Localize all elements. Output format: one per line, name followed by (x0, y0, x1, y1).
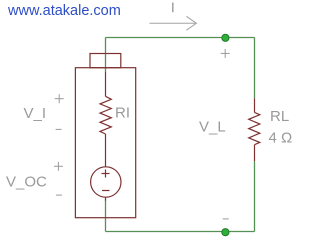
Thevenin equivalent box outline (75, 68, 135, 218)
voltage source minus mark (102, 190, 110, 192)
wire: RL bottom lead (red) (254, 145, 256, 162)
wire: left vertical green segment entering box (105, 38, 107, 72)
label - (V_OC polarity bottom) (56, 194, 62, 196)
wire: RI top lead (red) (105, 72, 107, 97)
label - (V_L polarity bottom) (223, 218, 229, 220)
svg-text:RI: RI (115, 104, 130, 121)
wire: top horizontal net from Thevenin box to load (106, 37, 255, 39)
wire: right vertical green segment below RL (254, 161, 256, 231)
resistor RL (249, 112, 260, 144)
label + (V_I polarity top) (55, 98, 64, 100)
svg-text:V_OC: V_OC (6, 173, 47, 190)
wire: bottom horizontal return net (106, 231, 255, 233)
Thevenin box terminal notch (90, 54, 121, 68)
svg-text:www.atakale.com: www.atakale.com (7, 3, 121, 19)
voltage source plus mark (102, 173, 110, 175)
current arrow I (150, 22, 196, 24)
voltage source V_OC circle (91, 167, 121, 197)
svg-text:RL: RL (270, 108, 289, 125)
svg-text:4 Ω: 4 Ω (269, 130, 293, 147)
svg-text:V_L: V_L (199, 119, 226, 136)
wire: lead between RI and source V_OC (red) (105, 134, 107, 167)
wire: right vertical green segment above RL (254, 38, 256, 99)
wire: left vertical green segment below source (105, 200, 107, 232)
label + (V_OC polarity top) (54, 165, 63, 167)
label I (current) (172, 3, 174, 13)
node dot: top output terminal (222, 34, 229, 41)
wire: source bottom lead (red) (105, 197, 107, 200)
node dot: bottom output terminal (222, 229, 229, 236)
resistor RI (100, 96, 111, 134)
label - (V_I polarity bottom) (56, 128, 62, 130)
label + (V_L polarity top) (221, 52, 230, 54)
wire: RL top lead (red) (254, 98, 256, 112)
svg-text:V_I: V_I (24, 105, 47, 122)
